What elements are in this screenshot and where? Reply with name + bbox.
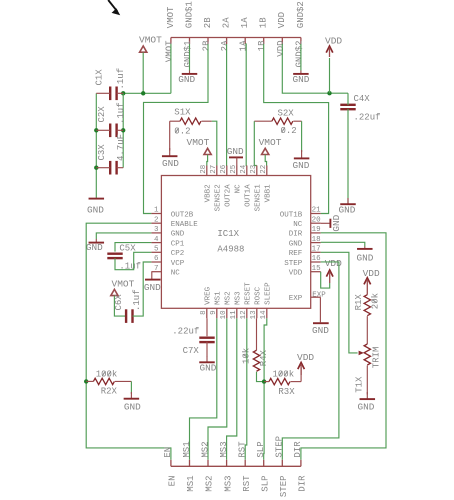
svg-text:12: 12 <box>240 310 248 319</box>
svg-text:MS1: MS1 <box>186 476 196 492</box>
svg-text:26: 26 <box>220 164 228 174</box>
svg-text:STEP: STEP <box>279 476 289 498</box>
svg-text:3: 3 <box>154 226 159 234</box>
wire SLEEP net <box>264 318 267 460</box>
svg-text:GND: GND <box>178 74 195 85</box>
svg-text:.1uf: .1uf <box>116 102 126 124</box>
svg-text:GND$2: GND$2 <box>296 1 306 28</box>
svg-text:OUT2B: OUT2B <box>171 211 194 219</box>
svg-text:SENSE1: SENSE1 <box>255 184 263 212</box>
svg-text:DIR: DIR <box>298 475 308 492</box>
svg-text:2: 2 <box>154 216 159 224</box>
svg-text:9: 9 <box>210 310 218 315</box>
svg-text:GND: GND <box>162 158 179 169</box>
pin 13 ROSC <box>256 308 258 318</box>
capacitor C7X <box>199 337 214 339</box>
svg-text:VMOT: VMOT <box>166 6 176 28</box>
svg-text:C3X: C3X <box>97 144 107 161</box>
header JP2 pin SLP <box>263 460 265 467</box>
pin 12 RESET <box>246 308 248 318</box>
wire VMOT to C6X <box>114 296 126 317</box>
svg-text:GND: GND <box>331 214 342 231</box>
svg-text:25: 25 <box>230 164 238 174</box>
wire C5X to CP2 pin 5 <box>115 252 151 269</box>
header JP2 pin RST <box>244 460 246 467</box>
svg-text:2B: 2B <box>203 17 213 28</box>
svg-text:GND: GND <box>200 362 217 373</box>
ground R2X <box>130 392 132 399</box>
ground T1X <box>366 392 368 399</box>
resistor R3X <box>269 378 290 384</box>
svg-text:.22uf: .22uf <box>354 113 381 123</box>
wire S1X right to SENSE2 pin 27 <box>212 121 217 165</box>
svg-text:GND: GND <box>358 401 375 412</box>
junction VMOT rail / caps <box>121 91 125 95</box>
wire R2X to ground <box>130 381 132 394</box>
svg-text:21: 21 <box>312 207 322 215</box>
pin 26 OUT2A <box>226 166 228 176</box>
wire S2X right to ground <box>301 121 303 152</box>
svg-text:10: 10 <box>220 310 228 320</box>
svg-text:4: 4 <box>154 236 159 244</box>
pin 8 VREG <box>206 308 208 318</box>
svg-text:23: 23 <box>250 164 258 174</box>
pin EXP <box>311 296 321 298</box>
capacitor C3X <box>109 161 111 175</box>
svg-text:S1X: S1X <box>174 108 191 118</box>
ground pin 20 (rotated) <box>321 222 331 224</box>
wire C4X to ground <box>347 109 349 204</box>
svg-text:STEP: STEP <box>284 260 303 268</box>
pin 9 MS1 <box>216 308 218 318</box>
svg-text:CP2: CP2 <box>171 250 185 258</box>
svg-text:GND: GND <box>293 160 310 171</box>
pin 16 STEP <box>311 261 321 263</box>
svg-text:19: 19 <box>312 226 321 234</box>
header JP2 pin MS3 <box>226 460 228 467</box>
header JP1 pin VDD <box>281 38 283 45</box>
svg-text:IC1X: IC1X <box>217 229 239 239</box>
svg-text:4.7uF: 4.7uF <box>116 134 126 161</box>
wire 2B net <box>144 44 209 214</box>
svg-text:100k: 100k <box>273 369 295 379</box>
svg-text:VDD: VDD <box>363 268 380 279</box>
wire caps right column <box>122 93 124 167</box>
svg-text:GND: GND <box>87 205 104 216</box>
svg-text:VDD: VDD <box>325 36 342 47</box>
svg-text:GND$2: GND$2 <box>294 41 304 68</box>
svg-text:VREG: VREG <box>205 286 213 305</box>
potentiometer TRIM T1X <box>364 344 370 365</box>
svg-text:VMOT: VMOT <box>259 137 282 148</box>
svg-text:GND: GND <box>339 204 356 215</box>
svg-text:OUT1A: OUT1A <box>245 184 253 207</box>
svg-text:RESET: RESET <box>245 282 253 305</box>
svg-text:R3X: R3X <box>278 387 295 397</box>
pin 28 VBB2 <box>206 166 208 176</box>
junction VDD rail / supply <box>327 91 331 95</box>
junction C3X left <box>94 166 98 170</box>
ground S1X <box>169 148 171 156</box>
wire STEP net <box>282 262 339 460</box>
pin 17 REF <box>311 251 321 253</box>
svg-text:20k: 20k <box>371 293 381 309</box>
svg-text:C6X: C6X <box>114 294 124 311</box>
wire R4X to SLEEP junction <box>257 372 265 382</box>
header JP2 pin EN <box>170 460 172 467</box>
resistor S1X <box>180 118 201 124</box>
svg-text:NC: NC <box>293 221 303 229</box>
capacitor C2X <box>109 124 111 138</box>
svg-text:SLEEP: SLEEP <box>265 282 273 305</box>
pin 10 MS2 <box>226 308 228 318</box>
svg-text:28: 28 <box>200 165 208 174</box>
wire VREG pin 8 to C7X <box>206 318 208 336</box>
wire 2A net to OUT2A pin 26 <box>226 44 228 166</box>
wire VMOT rail <box>123 92 171 94</box>
wire S2X left to SENSE1 pin 23 <box>254 121 256 165</box>
junction SLEEP / R3X / R4X <box>262 379 266 383</box>
svg-text:MS1: MS1 <box>182 441 192 457</box>
pin 19 DIR <box>311 232 321 234</box>
svg-text:MS2: MS2 <box>200 441 210 457</box>
ground C4X <box>347 198 349 204</box>
svg-text:GND: GND <box>289 240 303 248</box>
resistor R1X <box>364 295 370 316</box>
svg-text:A4988: A4988 <box>217 244 244 254</box>
wire S1X left to ground <box>169 121 171 150</box>
resistor R4X on ROSC <box>256 318 258 350</box>
wire GND$1 pin <box>189 44 191 71</box>
wire VMOT header to rail <box>170 44 172 93</box>
svg-text:OUT1B: OUT1B <box>280 211 303 219</box>
pin 20 NC <box>311 222 321 224</box>
svg-text:ROSC: ROSC <box>255 286 263 305</box>
svg-text:SLP: SLP <box>256 441 266 457</box>
ground GND$2 <box>300 71 302 74</box>
wire RST net <box>245 318 247 460</box>
svg-text:1A: 1A <box>240 17 250 28</box>
capacitor C4X <box>340 104 355 106</box>
svg-text:1B: 1B <box>259 17 269 28</box>
svg-text:C7X: C7X <box>183 346 200 356</box>
wire REF pin 17 to trimpot wiper <box>321 252 358 353</box>
svg-text:GND: GND <box>124 402 141 413</box>
svg-text:C1X: C1X <box>95 69 105 86</box>
svg-text:GND: GND <box>293 74 310 85</box>
svg-text:ENABLE: ENABLE <box>171 221 199 229</box>
svg-text:C4X: C4X <box>354 94 371 104</box>
wire MS1 net <box>190 318 217 460</box>
ground pin 3 <box>95 239 97 243</box>
svg-text:GND: GND <box>144 282 161 293</box>
svg-text:STEP: STEP <box>275 436 285 458</box>
svg-text:17: 17 <box>312 246 321 254</box>
pin 3 GND <box>151 232 161 234</box>
svg-text:RST: RST <box>238 441 248 458</box>
wire C7X to ground <box>206 342 208 357</box>
pin 6 VCP <box>151 261 161 263</box>
wiper arrowhead <box>359 351 364 356</box>
svg-text:VMOT: VMOT <box>112 279 135 290</box>
pin 27 SENSE2 <box>216 166 218 176</box>
wire VDD pin 15 <box>321 272 330 288</box>
svg-text:GND$1: GND$1 <box>183 41 193 68</box>
svg-text:VDD: VDD <box>325 258 342 269</box>
ground S2X <box>301 150 303 158</box>
svg-text:22: 22 <box>260 165 268 174</box>
svg-text:VDD: VDD <box>276 41 286 57</box>
wire VBB1 pin 22 <box>265 155 266 166</box>
wire VMOT supply to rail <box>142 52 144 93</box>
svg-text:TRIM: TRIM <box>372 347 382 369</box>
pin 4 CP1 <box>151 242 161 244</box>
svg-text:EN: EN <box>168 476 178 487</box>
svg-text:VBB1: VBB1 <box>265 184 273 203</box>
svg-text:1A: 1A <box>239 40 249 51</box>
svg-text:OUT2A: OUT2A <box>225 184 233 207</box>
svg-text:R1X: R1X <box>354 294 364 311</box>
svg-text:14: 14 <box>260 310 268 320</box>
resistor R2X <box>93 378 114 384</box>
svg-text:2B: 2B <box>202 40 212 51</box>
svg-text:2A: 2A <box>222 17 232 28</box>
header JP1 pin VMOT <box>170 38 172 45</box>
svg-text:MS2: MS2 <box>225 291 233 305</box>
ground caps <box>95 198 97 199</box>
header JP1 pin 1B <box>263 38 265 45</box>
pin 25 NC <box>236 166 238 176</box>
wire 1A net to OUT1A pin 24 <box>245 44 247 166</box>
svg-text:15: 15 <box>312 265 322 273</box>
pin 23 SENSE1 <box>256 166 258 176</box>
pin 22 VBB1 <box>266 166 268 176</box>
svg-text:18: 18 <box>312 236 321 244</box>
svg-text:16: 16 <box>312 255 322 263</box>
header JP2 pin DIR <box>300 460 302 467</box>
pin 7 NC <box>151 271 161 273</box>
svg-text:MS3: MS3 <box>235 291 243 305</box>
wire VDD supply stem <box>329 58 331 93</box>
svg-text:GND: GND <box>86 242 103 253</box>
svg-text:7: 7 <box>154 265 159 273</box>
svg-text:VMOT: VMOT <box>164 40 174 62</box>
svg-text:2A: 2A <box>220 40 230 51</box>
wire CP1 pin 4 to C5X <box>115 243 151 252</box>
svg-text:NC: NC <box>171 270 181 278</box>
header JP1 pin 2B <box>207 38 209 45</box>
svg-text:.22uf: .22uf <box>172 327 199 337</box>
svg-text:100k: 100k <box>96 370 118 380</box>
svg-text:GND$1: GND$1 <box>184 1 194 28</box>
wire R1X to TRIM <box>366 316 368 344</box>
ground pin 7 NC <box>151 272 153 279</box>
svg-text:20: 20 <box>312 216 322 224</box>
capacitor C6X <box>125 309 127 323</box>
wire VBB2 pin 28 <box>206 155 209 166</box>
header JP2 pin STEP <box>281 460 283 467</box>
svg-text:6: 6 <box>154 255 159 263</box>
svg-text:VBB2: VBB2 <box>205 184 213 202</box>
svg-text:MS2: MS2 <box>205 476 215 492</box>
wire 1B net to OUT1B pin 21 <box>264 44 329 214</box>
svg-text:EXP: EXP <box>312 291 326 299</box>
wire MS2 net <box>208 318 227 460</box>
wire ENABLE net (EN) <box>86 223 171 460</box>
svg-text:13: 13 <box>250 310 258 320</box>
svg-text:DIR: DIR <box>293 441 303 458</box>
ground pin 18 <box>364 247 366 249</box>
svg-text:GND: GND <box>357 252 374 263</box>
svg-text:VMOT: VMOT <box>139 35 162 46</box>
wire MS3 net <box>227 318 237 460</box>
header JP1 pin 2A <box>226 38 228 45</box>
junction EN / R2X <box>84 379 88 383</box>
wire C6X to VCP pin 6 <box>133 262 152 316</box>
pin 1 OUT2B <box>151 213 161 215</box>
junction VMOT rail / supply <box>141 91 145 95</box>
wire DIR net <box>301 233 386 460</box>
header JP1 pin GND$1 <box>189 38 191 45</box>
svg-text:11: 11 <box>230 310 238 320</box>
svg-text:EXP: EXP <box>289 295 303 303</box>
svg-text:C2X: C2X <box>97 106 107 123</box>
svg-text:T1X: T1X <box>355 376 365 393</box>
svg-text:VDD: VDD <box>289 270 303 278</box>
svg-text:VMOT: VMOT <box>187 137 210 148</box>
header JP1 bus <box>171 37 301 39</box>
header JP1 pin 1A <box>244 38 246 45</box>
svg-text:27: 27 <box>210 165 218 174</box>
svg-text:GND: GND <box>227 146 244 157</box>
junction C2X right <box>121 128 125 132</box>
pin 24 OUT1A <box>246 166 248 176</box>
wire TRIM to ground <box>366 366 368 395</box>
header JP2 pin MS2 <box>207 460 209 467</box>
svg-text:NC: NC <box>235 184 243 194</box>
pin 21 OUT1B <box>311 213 321 215</box>
pin 5 CP2 <box>151 251 161 253</box>
cursor arrow <box>108 0 117 11</box>
svg-text:5: 5 <box>154 246 159 254</box>
capacitor C1X <box>109 87 111 101</box>
wire GND pin 3 <box>96 233 151 239</box>
svg-text:VDD: VDD <box>277 12 287 28</box>
svg-text:1B: 1B <box>257 40 267 51</box>
svg-text:24: 24 <box>240 164 248 174</box>
svg-text:RST: RST <box>242 475 252 492</box>
svg-text:REF: REF <box>289 250 303 258</box>
wire GND$2 pin <box>300 44 302 71</box>
svg-text:1: 1 <box>154 207 159 215</box>
svg-text:.1uf: .1uf <box>116 68 126 90</box>
svg-text:GND: GND <box>312 325 329 336</box>
wire VDD header to rail <box>282 44 348 93</box>
svg-text:MS3: MS3 <box>219 441 229 457</box>
junction C2X left <box>94 128 98 132</box>
wire caps left column <box>95 93 97 197</box>
pin 15 VDD <box>311 271 321 273</box>
svg-text:EN: EN <box>163 447 173 458</box>
ground GND$1 <box>189 71 191 74</box>
svg-text:VDD: VDD <box>297 352 314 363</box>
ground EXP <box>313 322 329 324</box>
svg-text:MS3: MS3 <box>223 476 233 492</box>
pin 14 SLEEP <box>266 308 268 318</box>
svg-text:SENSE2: SENSE2 <box>215 184 223 211</box>
resistor S2X <box>272 118 293 124</box>
capacitor C5X <box>107 252 122 254</box>
pin 18 GND <box>311 242 321 244</box>
svg-text:GND: GND <box>171 231 185 239</box>
svg-text:MS1: MS1 <box>215 291 223 305</box>
svg-text:DIR: DIR <box>289 231 303 239</box>
pin 2 ENABLE <box>151 222 161 224</box>
op-amp U1 IC1X A4988 body <box>161 176 310 309</box>
pin 11 MS3 <box>236 308 238 318</box>
ground C7X <box>206 356 208 362</box>
svg-text:8: 8 <box>200 310 208 315</box>
header JP1 pin GND$2 <box>300 38 302 45</box>
svg-text:R2X: R2X <box>101 387 118 397</box>
wire EXP to ground <box>319 297 321 322</box>
header JP2 bus <box>171 465 301 467</box>
svg-text:.1uf: .1uf <box>132 289 142 311</box>
svg-text:VCP: VCP <box>171 260 185 268</box>
svg-text:S2X: S2X <box>278 108 295 118</box>
svg-text:CP1: CP1 <box>171 240 185 248</box>
wire R3X to VDD <box>300 368 302 382</box>
wire GND pin 18 <box>321 242 365 246</box>
svg-text:SLP: SLP <box>260 476 270 492</box>
header JP2 pin MS1 <box>189 460 191 467</box>
